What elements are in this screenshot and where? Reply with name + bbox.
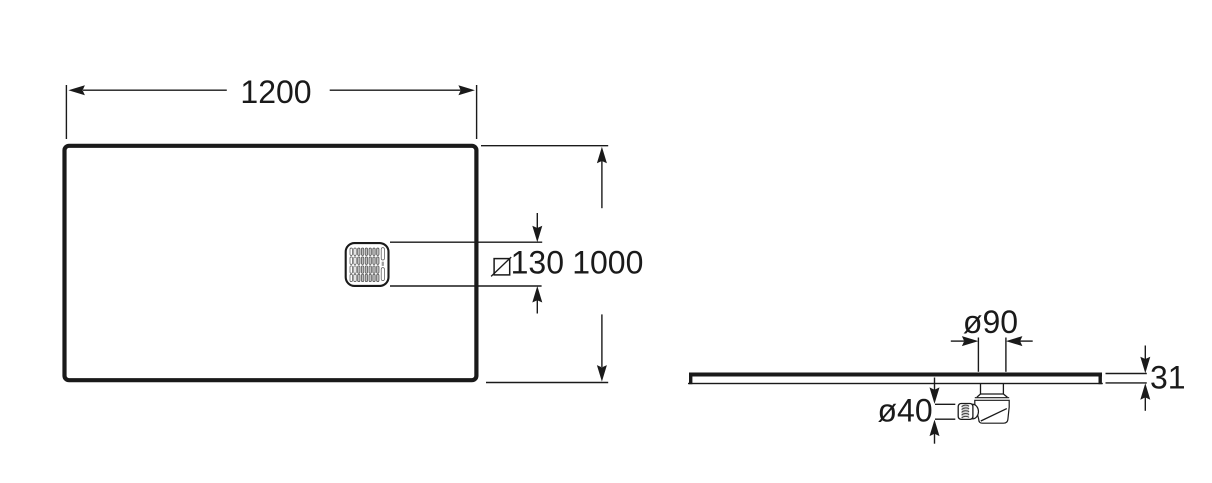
dimension square130: up arrow	[532, 286, 542, 303]
svg-text:ø40: ø40	[878, 392, 933, 428]
dimension square130: square symbol	[494, 259, 510, 275]
dimension 31: up arrow	[1140, 383, 1150, 400]
drain grate: slot grid	[350, 248, 384, 282]
dimension 1000: top extension line	[481, 145, 608, 147]
side view: left end cap	[689, 373, 692, 385]
svg-text:130: 130	[511, 244, 564, 280]
dimension 1200: left extension line	[65, 85, 67, 139]
dimension 31: bottom extension line	[1106, 382, 1147, 384]
dimension d40: bottom leader line	[935, 418, 955, 420]
dimension d40: up arrow	[930, 420, 940, 437]
dimension 1200: left arrow	[68, 85, 85, 95]
dimension d90: right arrow and tail	[1006, 336, 1023, 346]
dimension 31: top extension line	[1106, 373, 1147, 375]
dimension 1200: right extension line	[476, 85, 478, 139]
drain trap: flare	[977, 394, 1008, 397]
plan view: tray outline	[65, 146, 477, 380]
dimension d90: left arrow and tail	[951, 340, 964, 342]
drain trap: outlet dome	[973, 404, 979, 419]
drain trap: cup body	[975, 400, 1009, 423]
dimension square130: bottom leader line	[390, 285, 542, 287]
dimension square130: top leader line	[390, 241, 542, 243]
drain trap: corrugation coils	[962, 405, 970, 417]
svg-text:1200: 1200	[240, 74, 311, 110]
dimension d40: top leader line	[935, 403, 955, 405]
dimension 1000: bottom extension line	[486, 382, 608, 384]
svg-text:ø90: ø90	[963, 304, 1018, 340]
side view: right end cap	[1099, 373, 1102, 385]
drain trap: diagonal face line	[981, 409, 1007, 421]
svg-text:31: 31	[1150, 359, 1186, 395]
side view: tray top thick edge	[689, 373, 1102, 377]
drain grate: outer rounded square	[346, 243, 389, 286]
dimension d90: right extension line	[1005, 338, 1007, 372]
side view: bottom thin edge	[688, 383, 1103, 384]
dimension 1200: left dim line	[83, 89, 227, 91]
dimension 31: down arrow	[1144, 346, 1146, 360]
dimension square130: down arrow	[532, 226, 542, 243]
dimension 1200: right dim line	[330, 89, 461, 91]
dimension d90: left extension line	[977, 338, 979, 372]
drain trap: corrugated outlet sleeve	[958, 404, 973, 420]
dimension 1000: down arrow	[597, 365, 607, 382]
drain trap: vertical pipe below tray	[980, 384, 982, 395]
dimension d40: down arrow	[934, 378, 936, 391]
dimension 1200: right arrow	[458, 85, 475, 95]
svg-text:1000: 1000	[572, 244, 643, 280]
dimension 1000: up arrow	[597, 147, 607, 164]
